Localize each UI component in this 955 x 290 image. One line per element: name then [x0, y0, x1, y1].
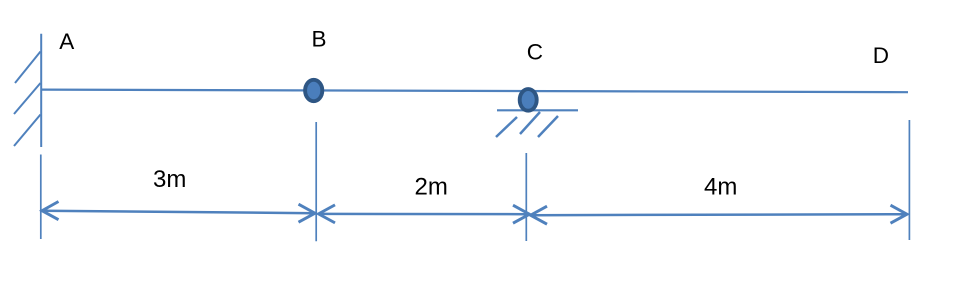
- wall hatch 1: [15, 52, 41, 84]
- 2m right arrowhead: [513, 205, 530, 223]
- ground hatch 3: [538, 116, 558, 137]
- 2m left arrowhead: [319, 205, 336, 223]
- svg-text:A: A: [59, 29, 74, 54]
- 3m right arrowhead: [299, 204, 316, 222]
- svg-text:3m: 3m: [153, 166, 186, 193]
- dimension tick B: [315, 122, 317, 241]
- 3m left arrowhead: [42, 202, 59, 220]
- 3m dimension line: [42, 211, 315, 214]
- svg-text:D: D: [873, 43, 889, 68]
- beam A to D: [41, 90, 908, 93]
- 4m left arrowhead: [531, 206, 548, 224]
- svg-text:2m: 2m: [415, 174, 448, 201]
- hinge circle B: [305, 80, 322, 101]
- svg-text:C: C: [527, 39, 543, 64]
- dimension tick A: [40, 155, 42, 240]
- dimension tick D: [908, 120, 910, 240]
- 2m dimension line: [319, 213, 530, 216]
- wall hatch 3: [14, 115, 41, 147]
- wall at A: [40, 34, 42, 147]
- 4m right arrowhead: [891, 205, 908, 223]
- roller circle C: [520, 89, 537, 111]
- 4m dimension line: [531, 214, 908, 215]
- dimension tick C: [525, 153, 527, 241]
- svg-text:B: B: [312, 27, 327, 52]
- ground line at C: [497, 109, 578, 111]
- svg-text:4m: 4m: [704, 174, 737, 201]
- ground hatch 2: [520, 112, 540, 134]
- wall hatch 2: [14, 83, 41, 114]
- ground hatch 1: [496, 117, 517, 137]
